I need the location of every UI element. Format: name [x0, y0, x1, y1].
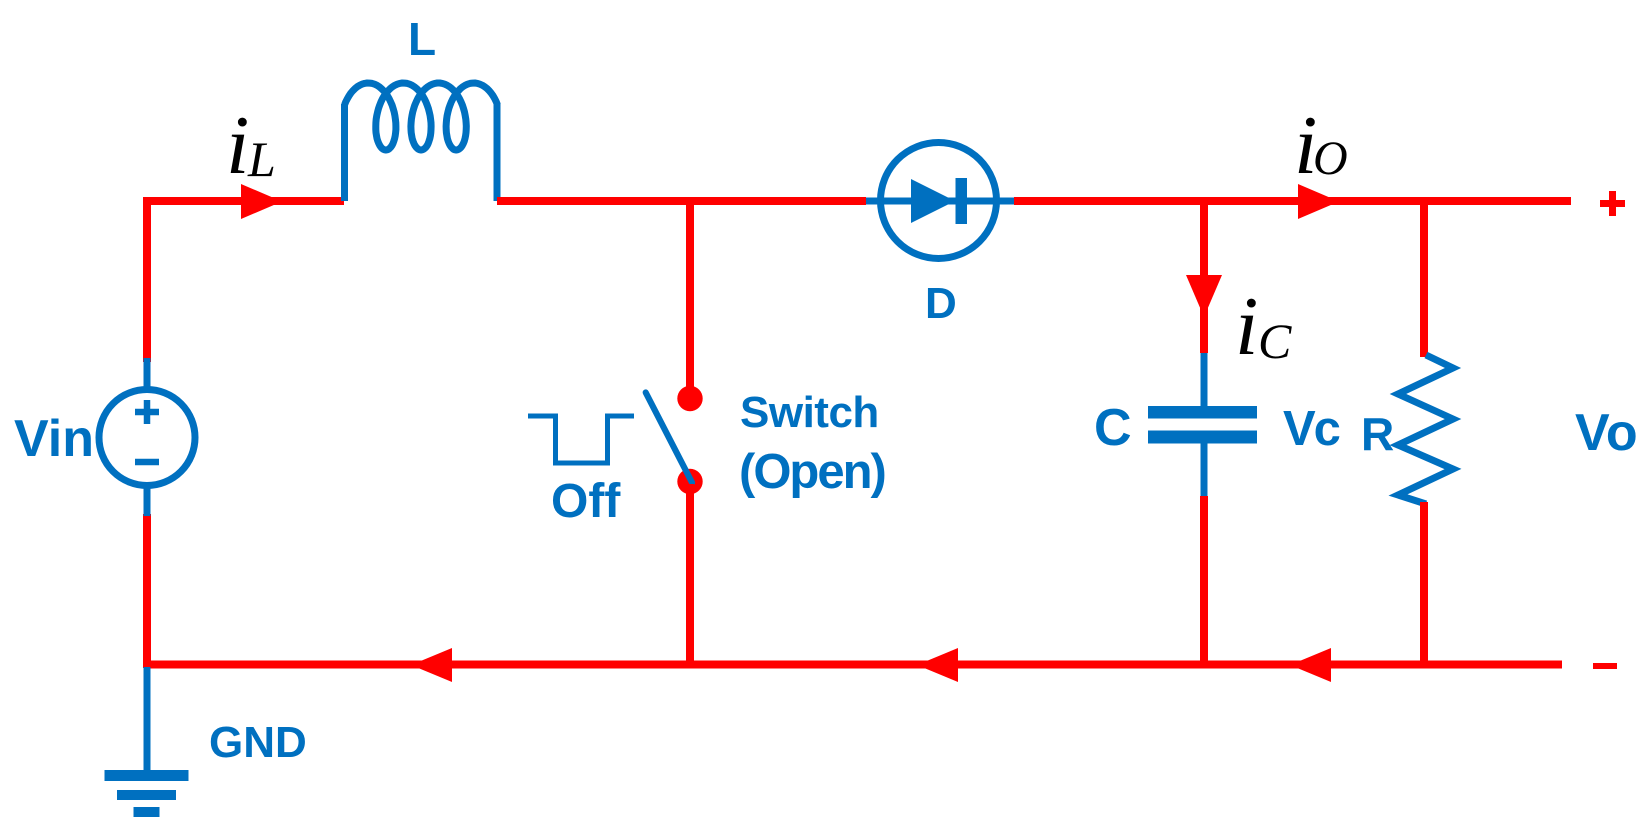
- wire: top-right horizontal from diode to + terminal: [1014, 197, 1571, 205]
- switch top contact dot: [677, 386, 702, 411]
- svg-text:L: L: [247, 131, 276, 187]
- voltage source minus sign: [135, 459, 159, 466]
- resistor R zigzag: [1398, 355, 1453, 504]
- diode D cathode bar: [956, 178, 968, 224]
- svg-text:C: C: [1258, 313, 1292, 369]
- - terminal minus dash: [1593, 663, 1617, 669]
- wire: capacitor leg upper red segment: [1200, 201, 1208, 353]
- switch lever (open): [646, 393, 692, 483]
- svg-text:L: L: [408, 13, 436, 65]
- svg-text:Vo: Vo: [1575, 404, 1638, 462]
- svg-text:C: C: [1094, 399, 1132, 457]
- voltage source Vin circle: [99, 390, 195, 486]
- svg-text:Off: Off: [551, 475, 621, 528]
- wire: switch vertical upper segment: [686, 201, 694, 396]
- inductor right stub: [494, 104, 501, 201]
- voltage source Vin blue stub below circle: [144, 485, 151, 516]
- arrow return current arrow 1 (left-pointing): [411, 648, 452, 682]
- capacitor C top plate: [1148, 406, 1257, 419]
- diode D blue lead line through circle: [866, 198, 1014, 205]
- svg-text:Vin: Vin: [14, 410, 94, 468]
- svg-text:R: R: [1361, 408, 1394, 460]
- voltage source plus sign: [135, 400, 159, 424]
- arrow iO current arrow on top-right wire: [1298, 184, 1339, 219]
- svg-text:(Open): (Open): [739, 445, 885, 499]
- wire: resistor leg upper red segment: [1420, 201, 1428, 357]
- capacitor C top lead (blue): [1201, 353, 1208, 407]
- arrow return current arrow 3 (left-pointing): [1290, 648, 1331, 682]
- wire: capacitor leg lower red segment: [1200, 496, 1208, 664]
- wire: switch vertical lower segment: [686, 484, 694, 664]
- capacitor C bottom lead (blue): [1201, 443, 1208, 496]
- wire: resistor leg lower red segment: [1420, 502, 1428, 664]
- inductor L coil: [345, 83, 498, 150]
- + terminal plus sign: [1600, 191, 1625, 216]
- voltage source Vin blue stub above circle: [144, 358, 151, 390]
- diode D anode triangle: [911, 179, 955, 223]
- svg-text:D: D: [925, 279, 957, 328]
- ground lead blue vertical: [144, 667, 151, 772]
- svg-text:O: O: [1313, 132, 1348, 185]
- diode D circle: [881, 143, 997, 259]
- arrow return current arrow 2 (left-pointing): [917, 648, 958, 682]
- arrow iC current arrow pointing down: [1186, 275, 1222, 317]
- capacitor C bottom plate: [1148, 431, 1257, 444]
- ground bar 1: [105, 770, 189, 781]
- wire: left vertical from Vin down to bottom wire: [143, 514, 151, 668]
- svg-text:i: i: [226, 99, 249, 192]
- svg-text:Switch: Switch: [740, 388, 879, 437]
- Off gate pulse waveform symbol: [528, 416, 634, 463]
- ground bar 2: [117, 790, 176, 800]
- inductor left stub: [341, 104, 348, 201]
- wire: left vertical from top wire down to Vin source: [143, 197, 151, 362]
- wire: top-left horizontal from Vin to inductor: [147, 197, 344, 205]
- switch bottom contact dot: [677, 469, 702, 494]
- wire: bottom horizontal return wire: [147, 661, 1562, 669]
- wire: top-middle horizontal from inductor to diode: [497, 197, 866, 205]
- ground bar 3: [134, 807, 160, 817]
- svg-text:Vc: Vc: [1283, 402, 1340, 456]
- arrow iL current arrow on top-left wire: [241, 184, 282, 219]
- svg-text:i: i: [1235, 280, 1258, 373]
- svg-text:GND: GND: [209, 718, 307, 767]
